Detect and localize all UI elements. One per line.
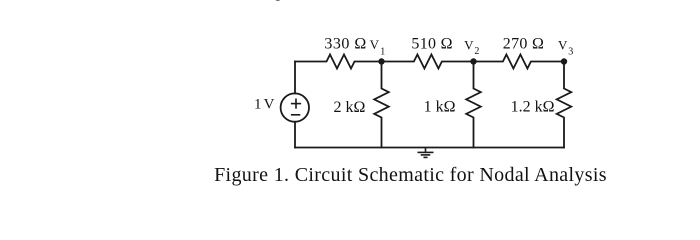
svg-text:V: V	[370, 37, 380, 52]
svg-text:1: 1	[380, 46, 385, 57]
svg-text:2 kΩ: 2 kΩ	[334, 99, 366, 116]
svg-text:270 Ω: 270 Ω	[503, 36, 544, 53]
svg-text:1: 1	[254, 96, 262, 112]
svg-text:3: 3	[568, 47, 573, 58]
svg-text:330 Ω: 330 Ω	[324, 35, 366, 52]
svg-text:510 Ω: 510 Ω	[411, 36, 452, 53]
svg-text:2: 2	[474, 46, 479, 57]
svg-text:V: V	[264, 96, 275, 112]
svg-text:Figure 1. Circuit Schematic fo: Figure 1. Circuit Schematic for Nodal An…	[214, 164, 607, 186]
svg-text:1 kΩ: 1 kΩ	[424, 99, 456, 116]
svg-text:V: V	[558, 37, 568, 52]
svg-text:V: V	[464, 37, 474, 52]
svg-text:1.2 kΩ: 1.2 kΩ	[511, 99, 555, 116]
